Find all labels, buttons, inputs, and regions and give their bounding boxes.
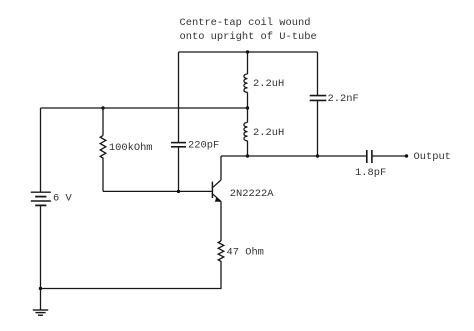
node junction C2 / output rail xyxy=(316,154,319,157)
svg-text:2.2uH: 2.2uH xyxy=(253,127,284,139)
svg-text:Output: Output xyxy=(414,151,451,163)
label note line 2 xyxy=(180,31,317,43)
node junction L2 / output rail xyxy=(246,154,249,157)
transistor Q1 2N2222A xyxy=(212,156,221,241)
svg-text:Centre-tap coil wound: Centre-tap coil wound xyxy=(180,17,311,29)
wire output rail left xyxy=(221,155,366,157)
svg-text:2.2uH: 2.2uH xyxy=(253,78,284,90)
capacitor C3 1.8pF xyxy=(367,150,372,163)
inductor L2 2.2uH xyxy=(244,108,248,156)
wire output rail right xyxy=(373,155,407,157)
svg-text:onto upright of U-tube: onto upright of U-tube xyxy=(180,31,317,43)
node junction battery/ground rail xyxy=(39,287,42,290)
svg-text:47 Ohm: 47 Ohm xyxy=(227,247,264,259)
label 2.2uH (upper) xyxy=(253,78,284,90)
label Output xyxy=(414,151,451,163)
svg-text:2N2222A: 2N2222A xyxy=(230,188,274,200)
resistor R1 100kOhm xyxy=(100,108,106,191)
node Output terminal xyxy=(405,154,408,157)
svg-text:100kOhm: 100kOhm xyxy=(109,142,153,154)
label 6 V xyxy=(53,193,72,205)
battery BT1 6V xyxy=(31,192,51,205)
wire bottom rail xyxy=(41,288,222,290)
svg-text:220pF: 220pF xyxy=(188,139,219,151)
wire middle rail (supply to coil centre tap) xyxy=(41,107,248,109)
svg-text:2.2nF: 2.2nF xyxy=(328,93,359,105)
node junction top rail / L1 xyxy=(246,50,249,53)
label 2N2222A xyxy=(230,188,274,200)
label 1.8pF xyxy=(355,167,386,179)
svg-text:6 V: 6 V xyxy=(53,193,72,205)
inductor L1 2.2uH xyxy=(244,52,248,108)
label note line 1 xyxy=(180,17,311,29)
label 2.2uH (lower) xyxy=(253,127,284,139)
wire left vertical lower (battery minus to ground rail) xyxy=(40,206,42,310)
label 100kOhm xyxy=(109,142,153,154)
label 47 Ohm xyxy=(227,247,264,259)
label 220pF xyxy=(188,139,219,151)
label 2.2nF xyxy=(328,93,359,105)
wire top rail xyxy=(179,51,318,53)
svg-text:1.8pF: 1.8pF xyxy=(355,167,386,179)
wire base rail xyxy=(103,190,212,192)
capacitor C1 220pF xyxy=(171,52,186,191)
node junction C1 / base rail xyxy=(177,190,180,193)
ground xyxy=(33,310,48,315)
resistor R2 47 Ohm xyxy=(218,241,224,289)
node junction top of R1 xyxy=(101,106,104,109)
wire left vertical upper (supply rail) xyxy=(40,108,42,192)
node junction centre tap xyxy=(246,106,249,109)
capacitor C2 2.2nF xyxy=(310,52,327,156)
